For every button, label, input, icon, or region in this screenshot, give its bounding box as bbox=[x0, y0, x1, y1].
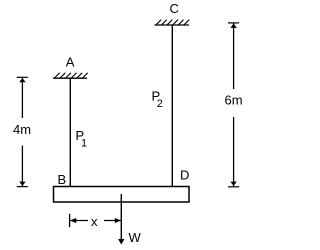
svg-text:4m: 4m bbox=[13, 122, 31, 137]
x dimension left line bbox=[70, 220, 88, 222]
right dimension bottom tick bbox=[228, 186, 239, 188]
load W arrowhead bbox=[118, 239, 124, 245]
left dimension 4m top tick bbox=[17, 76, 28, 78]
support A hatching bbox=[55, 73, 88, 78]
svg-text:W: W bbox=[129, 230, 142, 245]
svg-text:6m: 6m bbox=[225, 93, 243, 108]
svg-text:B: B bbox=[58, 172, 67, 187]
right dimension lower line bbox=[233, 117, 235, 186]
right dimension upper line bbox=[233, 24, 235, 90]
beam bar BD bbox=[54, 187, 190, 203]
rod P1 bbox=[69, 78, 71, 186]
left dimension bottom arrowhead bbox=[19, 182, 25, 186]
rod P2 bbox=[171, 25, 173, 187]
svg-text:D: D bbox=[180, 167, 189, 182]
load W arrow line bbox=[120, 194, 122, 239]
left dimension bottom tick bbox=[17, 186, 28, 188]
right dimension top arrowhead bbox=[230, 24, 236, 28]
svg-text:1: 1 bbox=[81, 138, 87, 150]
support C hatching bbox=[156, 20, 189, 25]
x dimension right line bbox=[104, 220, 121, 222]
svg-text:x: x bbox=[91, 214, 98, 229]
x dimension left arrowhead bbox=[70, 218, 76, 223]
left dimension top arrowhead bbox=[19, 78, 25, 82]
support A line bbox=[53, 77, 87, 79]
x dimension left tick bbox=[69, 214, 71, 227]
left dimension lower line bbox=[21, 146, 23, 187]
support C line bbox=[155, 24, 190, 26]
right dimension bottom arrowhead bbox=[230, 182, 236, 186]
svg-text:2: 2 bbox=[157, 98, 163, 110]
svg-text:A: A bbox=[66, 55, 75, 70]
right dimension 6m top tick bbox=[228, 22, 239, 24]
svg-text:C: C bbox=[170, 1, 179, 16]
left dimension upper line bbox=[21, 78, 23, 118]
x dimension right arrowhead bbox=[115, 218, 121, 223]
